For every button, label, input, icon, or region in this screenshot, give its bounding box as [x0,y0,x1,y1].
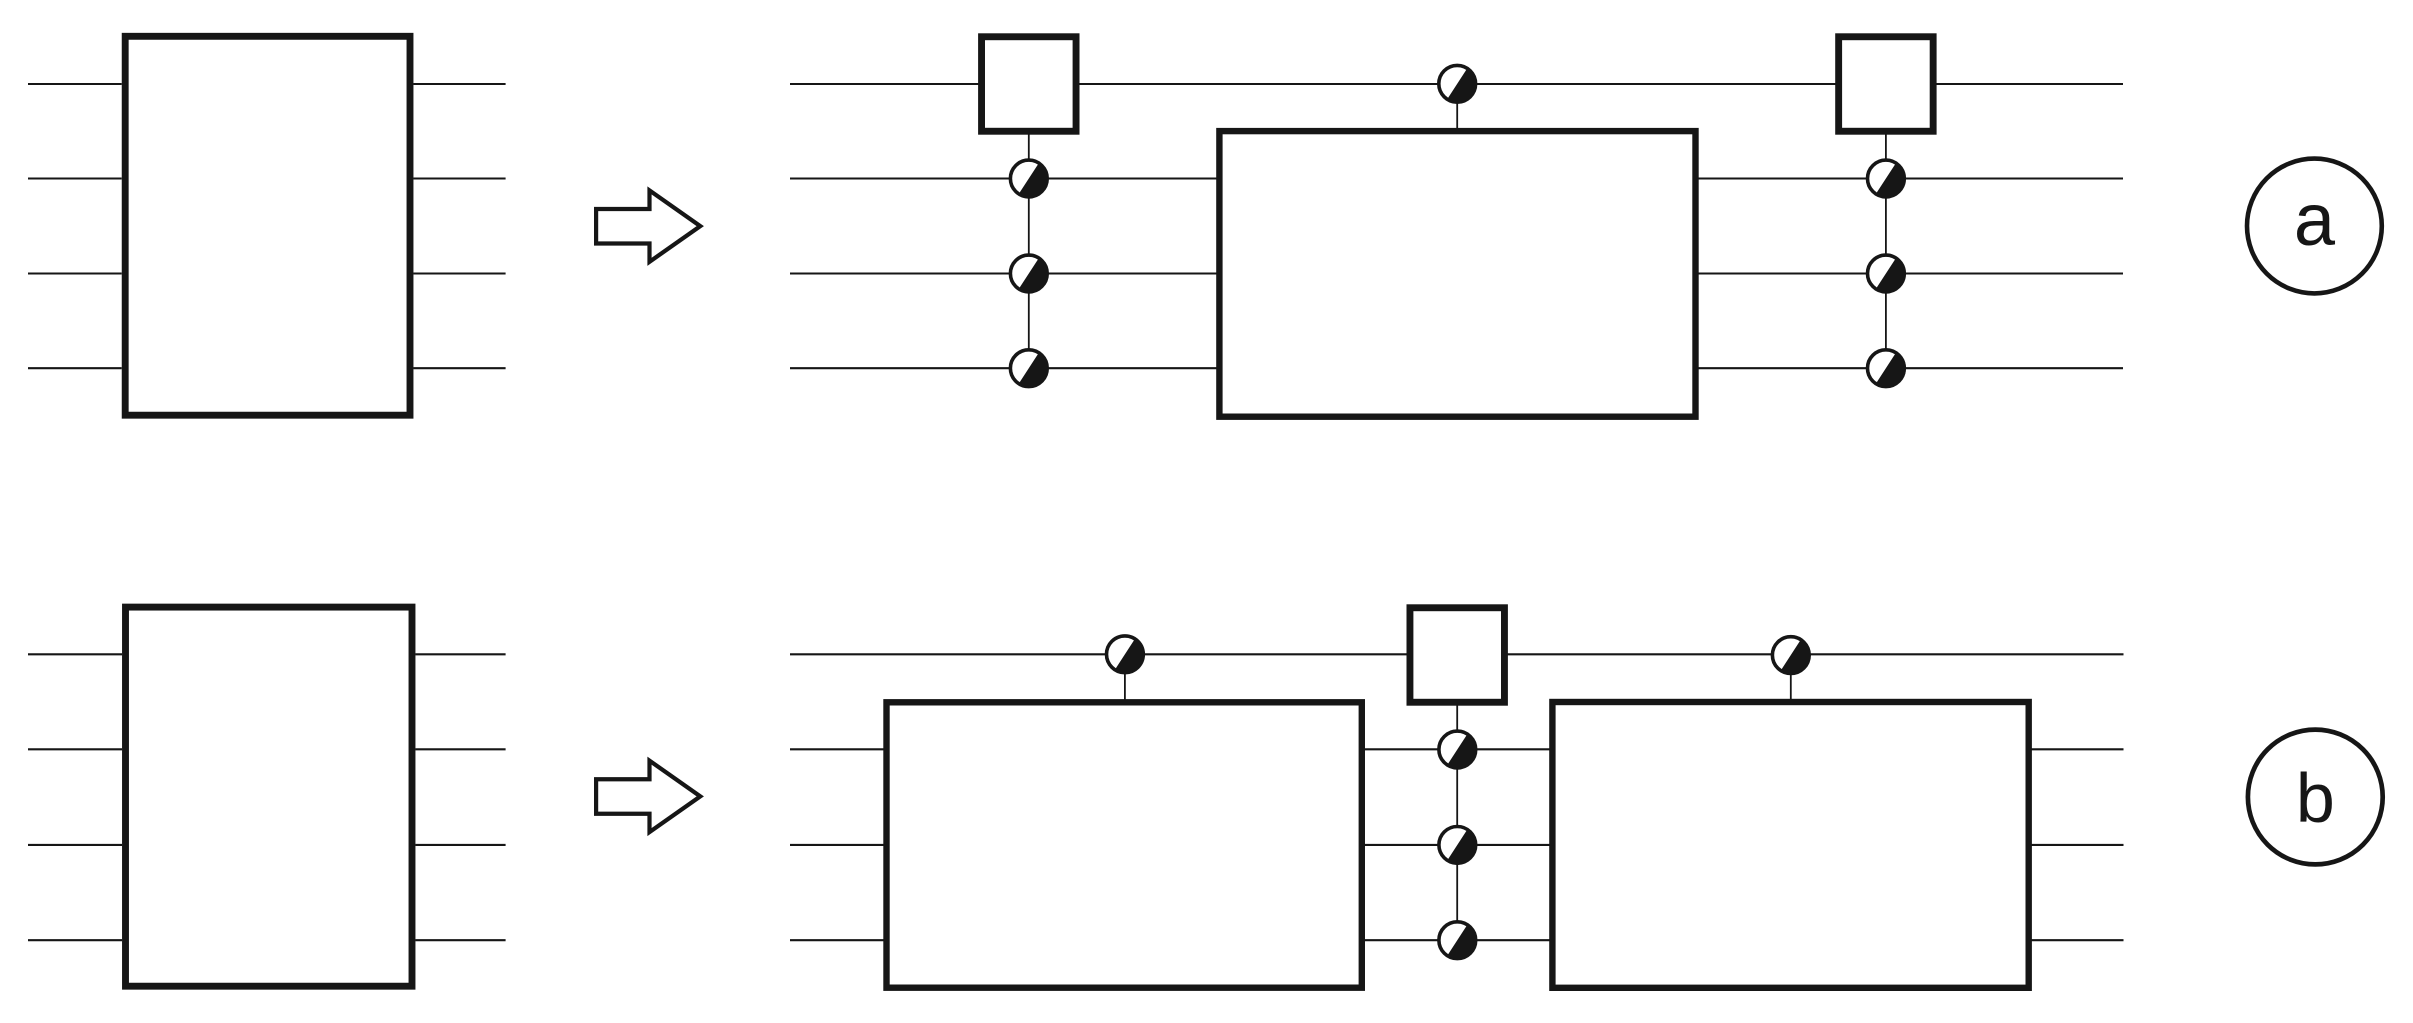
wire a-q1 [790,177,2123,179]
control line (row a, controlled-U) [1456,84,1458,131]
control node (a-q1, col 1) [1010,160,1047,197]
control line (row b, controlled box B3) [1790,655,1792,702]
label circle a [2247,159,2382,294]
wire b-q3 [790,939,2124,941]
control node on b-q0 above B3 [1772,637,1809,674]
square gate S2 on a-q0 [1839,37,1934,132]
unitary box U (row b left) [126,607,413,986]
wire b-q0 right stub [416,653,506,655]
square gate S3 on b-q0 [1410,608,1505,703]
control node on b-q0 above B2 [1107,636,1144,673]
wire a-q0 [790,83,2123,85]
wire a-q1 left stub [28,177,122,179]
wire b-q0 left stub [28,653,122,655]
control line (row b, multi-control column) [1456,700,1458,940]
wire b-q1 left stub [28,748,122,750]
wire a-q2 right stub [413,272,505,274]
wire a-q3 right stub [413,367,505,369]
unitary box U (row a left) [125,36,410,415]
control node (a-q2, col 2) [1868,255,1905,292]
control node (b-q3) [1439,922,1476,959]
control node (a-q3, col 1) [1010,350,1047,387]
control node (a-q2, col 1) [1010,255,1047,292]
wire a-q1 right stub [413,177,505,179]
wire a-q0 right stub [413,83,505,85]
controlled unitary box B2 (row b left) [887,702,1362,987]
wire b-q2 right stub [416,844,506,846]
control line (row b, controlled box B2) [1124,654,1126,702]
controlled unitary box B3 (row b right) [1552,702,2028,988]
wire b-q0 [790,653,2124,655]
implication arrow (row a) [596,190,700,261]
implication arrow (row b) [596,761,700,832]
control node (a-q3, col 2) [1868,350,1905,387]
control node on a-q0 above B1 [1439,65,1476,102]
wire b-q1 right stub [416,748,506,750]
wire a-q2 left stub [28,272,122,274]
controlled unitary box B1 (row a) [1219,131,1695,417]
wire a-q0 left stub [28,83,122,85]
wire a-q2 [790,272,2123,274]
control node (a-q1, col 2) [1868,160,1905,197]
square gate S1 on a-q0 [982,37,1077,132]
wire b-q2 [790,844,2124,846]
wire b-q3 right stub [416,939,506,941]
wire a-q3 left stub [28,367,122,369]
wire b-q2 left stub [28,844,122,846]
control node (b-q2) [1439,827,1476,864]
control line (row a, second multi-control column) [1885,130,1887,368]
label circle b [2248,730,2383,865]
wire a-q3 [790,367,2123,369]
wire b-q1 [790,748,2124,750]
svg-text:b: b [2296,759,2335,837]
wire b-q3 left stub [28,939,122,941]
svg-text:a: a [2294,178,2336,261]
control node (b-q1) [1439,731,1476,768]
control line (row a, first multi-control column) [1028,130,1030,368]
